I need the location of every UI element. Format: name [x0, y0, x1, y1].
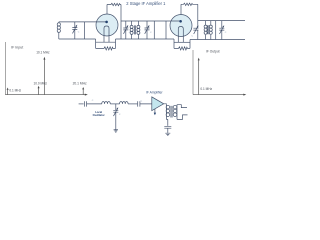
capacitor C6 coupling: [84, 101, 101, 106]
wire: V2 cathode right riser: [189, 40, 191, 49]
wire: V2 plate lead: [180, 4, 182, 14]
arrowhead: 0.1 MHz right: [198, 58, 200, 61]
transformer T2 primary winding: [204, 21, 207, 40]
svg-text:2 Stage IF Amplifier 1: 2 Stage IF Amplifier 1: [126, 1, 166, 6]
inductor L1 input coil: [57, 23, 60, 33]
svg-text:10.0 MHz: 10.0 MHz: [34, 81, 48, 85]
svg-text:0.1 MHz: 0.1 MHz: [200, 87, 212, 91]
wire: V2 cathode bar: [174, 41, 190, 43]
right spectrum horizontal axis: [193, 94, 244, 96]
wire: output tank bottom rail: [190, 39, 245, 41]
wire: R1 down to middle tank: [120, 5, 122, 22]
wire: middle tank top rail to grid of V2: [121, 20, 180, 22]
svg-text:10.1 MHz: 10.1 MHz: [36, 51, 50, 55]
capacitor C8 coupling: [138, 101, 152, 106]
right spectrum vertical axis: [192, 50, 194, 95]
inductor L2: [102, 102, 110, 104]
svg-text:C: C: [192, 36, 194, 38]
inductor L1 input coil leads: [58, 22, 60, 39]
ground: output: [165, 133, 170, 135]
resistor R2 cathode V1: [96, 47, 116, 50]
arrowhead: left axis end: [85, 94, 88, 96]
transformer T1 secondary winding: [137, 21, 140, 39]
wire: T3 secondary bottom terminal: [177, 115, 188, 120]
tube V1 filament: [104, 26, 109, 42]
wire: middle tank vertical A: [153, 21, 155, 39]
resistor R3 plate load: [181, 3, 198, 5]
svg-text:IF Input: IF Input: [11, 46, 23, 50]
left spectrum 20.1 MHz component: [82, 89, 84, 94]
wire: middle tank bottom rail: [116, 38, 175, 40]
wire: T3 secondary top terminal: [177, 105, 187, 108]
wire: L2 to L3 junction: [110, 103, 119, 105]
arrowhead: 10.0 MHz: [38, 86, 40, 88]
wire: mixer input lead: [79, 103, 84, 105]
left spectrum horizontal axis: [5, 94, 85, 96]
wire: left tank right vertical: [84, 22, 86, 39]
wire: left tank top rail to grid of V1: [59, 21, 106, 23]
svg-text:C: C: [141, 101, 143, 103]
wire: L3 to C8: [128, 103, 137, 105]
transformer T3 secondary winding: [173, 105, 177, 120]
wire: output tank vertical: [215, 21, 217, 40]
arrowhead: 10.1 MHz: [43, 57, 45, 60]
wire: V1 cathode right riser: [115, 39, 117, 48]
transformer T2 core: [208, 25, 209, 34]
svg-text:C: C: [225, 32, 227, 34]
tube V1 envelope: [96, 14, 118, 36]
svg-text:C: C: [119, 114, 121, 116]
arrowhead: 0.1 MHz left: [7, 88, 9, 90]
ground: local oscillator: [114, 130, 118, 132]
inductor L3: [120, 102, 128, 104]
svg-text:C: C: [150, 32, 152, 34]
node: V2 grid dot: [179, 20, 182, 23]
capacitor C2 variable, middle tank primary: [123, 21, 128, 39]
tube V2 filament: [178, 27, 183, 43]
capacitor C1 variable, left tank: [72, 22, 77, 39]
wire: left tank bottom rail: [59, 38, 96, 40]
op-amp U1 IF amplifier: [152, 97, 164, 111]
wire: R3 down to output tank: [197, 4, 199, 28]
left spectrum 10.0 MHz component: [38, 88, 40, 95]
transformer T1 core: [134, 25, 135, 34]
svg-text:C: C: [78, 32, 80, 34]
svg-text:IF Amplifier: IF Amplifier: [146, 90, 164, 94]
left spectrum 10.1 MHz component: [43, 59, 45, 94]
svg-text:20.1 MHz: 20.1 MHz: [73, 81, 87, 85]
arrowhead: right axis end: [243, 94, 246, 96]
left spectrum vertical axis: [4, 42, 6, 95]
resistor R1 plate load: [107, 3, 121, 5]
node: V1 grid dot: [105, 21, 108, 24]
ground: U1 arrow: [154, 109, 156, 115]
wire: middle tank vertical B: [165, 21, 167, 39]
transformer T1 primary winding: [130, 21, 133, 39]
capacitor C4 variable, output tank primary: [193, 25, 198, 39]
svg-text:IF Output: IF Output: [206, 50, 220, 54]
transformer T3 core: [171, 106, 172, 118]
wire: U1 output: [164, 103, 167, 106]
svg-text:0.1 MHz: 0.1 MHz: [9, 89, 21, 93]
wire: V1 plate lead: [106, 5, 108, 15]
capacitor C9 output bypass: [164, 119, 171, 132]
svg-text:Oscillator: Oscillator: [93, 113, 105, 117]
capacitor C7 variable, local oscillator tuning: [113, 104, 118, 130]
resistor R4 cathode V2: [174, 47, 190, 50]
wire: output tank top rail: [198, 20, 245, 22]
wire: middle tank left vertical: [120, 21, 122, 39]
wire: V2 cathode left drop: [173, 39, 175, 48]
wire: V1 cathode bar: [96, 41, 116, 43]
capacitor C3 variable, middle tank secondary: [145, 21, 150, 39]
transformer T3 primary winding: [166, 105, 170, 120]
svg-text:C: C: [92, 100, 94, 102]
wire: V1 cathode left drop: [95, 39, 97, 48]
capacitor C5 variable, output tank secondary: [219, 21, 224, 40]
arrowhead: 20.1 MHz: [82, 87, 84, 89]
tube V2 envelope: [170, 15, 192, 37]
transformer T2 secondary winding: [209, 21, 212, 40]
left spectrum 0.1 MHz component: [7, 90, 9, 95]
right spectrum 0.1 MHz component: [198, 60, 200, 94]
